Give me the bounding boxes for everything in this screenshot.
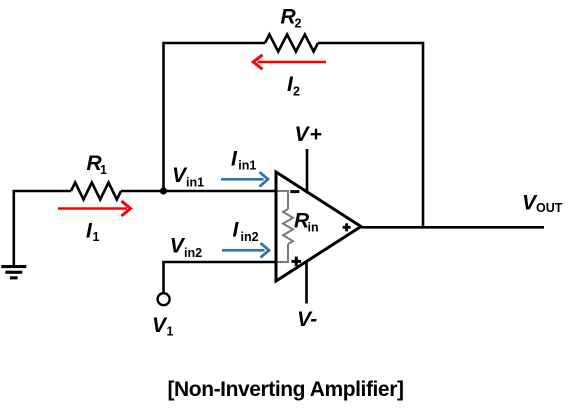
svg-text:2: 2: [295, 17, 302, 31]
label Iin2: [233, 219, 259, 244]
output plus sign: [343, 223, 351, 231]
wire R1 to op-amp minus input: [121, 190, 277, 193]
label VOUT: [522, 192, 563, 215]
svg-text:in2: in2: [241, 230, 259, 244]
label Iin1: [231, 148, 256, 173]
wire R2 to output node: [318, 43, 423, 227]
svg-text:in2: in2: [184, 246, 202, 260]
pin minus sign: [290, 190, 299, 193]
label I1: [86, 219, 100, 244]
wire ground to R1: [14, 191, 71, 266]
node Vin1 junction dot: [160, 187, 167, 194]
wire output: [361, 226, 544, 229]
label I2: [287, 73, 300, 98]
svg-text:OUT: OUT: [536, 201, 563, 215]
wire feedback left vertical and top to R2: [164, 43, 266, 191]
svg-text:2: 2: [293, 84, 300, 98]
resistor R1: [71, 183, 121, 200]
label Rin: [294, 210, 319, 235]
label V1: [152, 314, 174, 339]
svg-text:1: 1: [93, 230, 100, 244]
wire Vin2 input: [164, 262, 278, 293]
label Vin2: [170, 235, 202, 260]
current arrow I1 (red): [58, 201, 131, 216]
svg-text:1: 1: [167, 325, 174, 339]
svg-text:in1: in1: [238, 159, 256, 173]
svg-text:[Non-Inverting Amplifier]: [Non-Inverting Amplifier]: [167, 378, 403, 401]
svg-text:V+: V+: [295, 123, 323, 146]
svg-text:V-: V-: [297, 308, 317, 331]
resistor R2: [265, 35, 318, 52]
ground: [1, 265, 26, 279]
current arrow I2 (red): [253, 55, 326, 69]
label R1: [87, 152, 108, 177]
svg-text:1: 1: [100, 163, 107, 177]
wire V- supply: [305, 262, 308, 304]
label Vin1: [172, 164, 204, 189]
op-amp U1 triangle: [276, 172, 361, 281]
svg-text:in1: in1: [186, 175, 204, 189]
svg-text:in: in: [308, 220, 319, 234]
current arrow Iin2 (blue): [222, 243, 269, 258]
resistor Rin internal (gray): [278, 191, 294, 262]
current arrow Iin1 (blue): [221, 172, 268, 187]
pin plus sign: [292, 257, 302, 267]
wire V+ supply: [306, 149, 309, 194]
label R2: [281, 5, 302, 30]
terminal V1 circle: [158, 293, 170, 305]
